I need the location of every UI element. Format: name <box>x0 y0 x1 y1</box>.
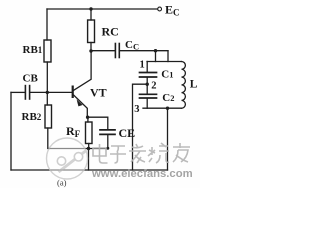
svg-text:VT: VT <box>90 86 107 100</box>
svg-text:www.elecfans.com: www.elecfans.com <box>91 168 193 180</box>
svg-text:2: 2 <box>151 81 156 92</box>
svg-text:C2: C2 <box>162 92 174 104</box>
svg-text:EC: EC <box>165 2 180 17</box>
svg-text:RF: RF <box>66 124 81 139</box>
svg-text:RC: RC <box>102 25 119 39</box>
svg-text:C1: C1 <box>161 68 173 80</box>
svg-text:CC: CC <box>125 39 139 52</box>
svg-text:3: 3 <box>134 104 139 115</box>
svg-text:RB2: RB2 <box>22 111 42 123</box>
svg-text:L: L <box>190 79 198 91</box>
svg-text:CB: CB <box>23 73 39 85</box>
svg-text:RB1: RB1 <box>23 44 43 56</box>
svg-text:1: 1 <box>140 60 145 71</box>
svg-text:CE: CE <box>119 126 136 140</box>
